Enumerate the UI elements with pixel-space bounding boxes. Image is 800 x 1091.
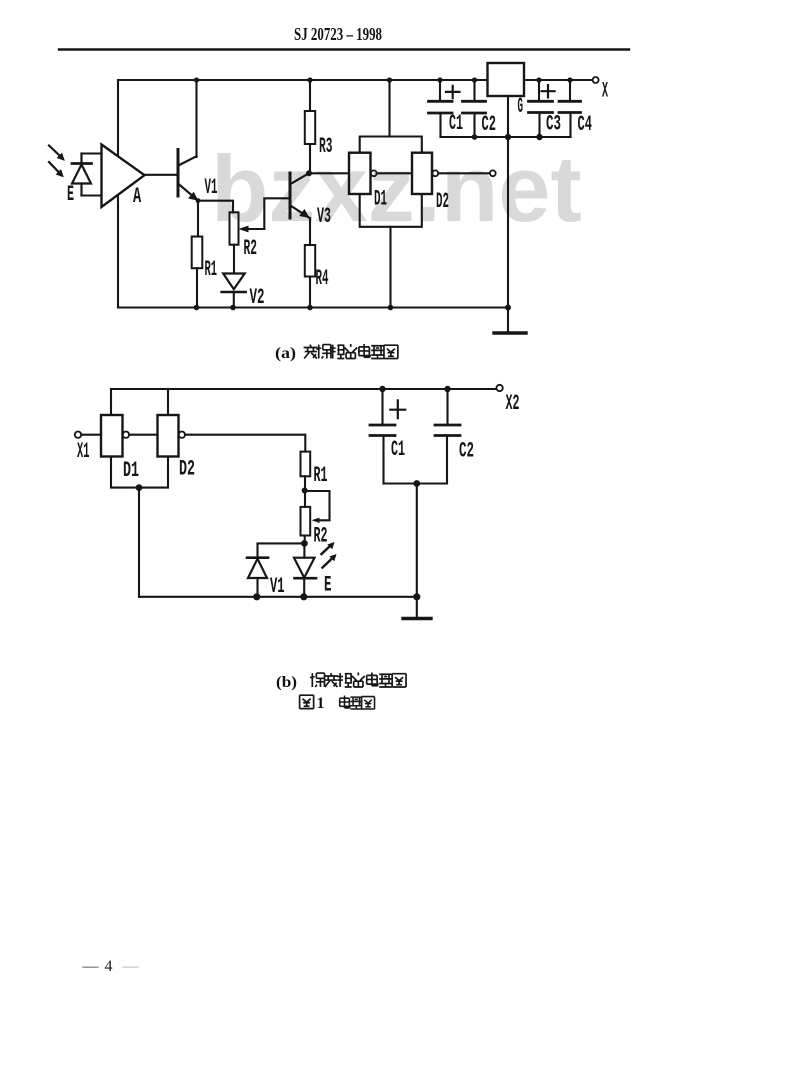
wire: D1/D2 bottom connector (b) [111, 457, 168, 488]
svg-text:(b): (b) [276, 674, 297, 691]
potentiometer R2 (b) [301, 507, 311, 536]
svg-text:X2: X2 [506, 392, 520, 417]
svg-text:E: E [324, 573, 331, 598]
terminal X1 [75, 432, 81, 438]
wire D1 to D2 [129, 434, 157, 436]
svg-text:D2: D2 [179, 458, 195, 482]
watermark bzxz.net [211, 135, 631, 243]
wire: emitter node to R2 [198, 201, 233, 213]
node dots (a) top rail [194, 77, 199, 82]
caption (b) hanzi 接收部分电路图 [310, 673, 406, 688]
wire: C1/C2 bottom connector [384, 482, 448, 484]
node under R2 [301, 540, 308, 547]
svg-text:C1: C1 [449, 112, 463, 137]
R2 wiper [245, 228, 264, 230]
regulator G [488, 63, 525, 96]
svg-text:(a): (a) [275, 345, 296, 362]
svg-text:R1: R1 [314, 464, 328, 489]
capacitor C2 (b) [446, 389, 448, 425]
svg-text:A: A [133, 185, 141, 209]
wire D1 to D2 [377, 172, 412, 174]
wire: bottom rail (b) [139, 596, 417, 598]
resistor R3 [309, 80, 311, 111]
wire: top rail (b) [111, 388, 496, 390]
svg-text:R2: R2 [244, 236, 257, 261]
wire: node to V1 [258, 543, 305, 557]
wire: amp output to V1 base [145, 174, 177, 176]
capacitor C1 [439, 80, 441, 101]
node dots (a) bus [472, 134, 478, 140]
inverter D1 [349, 153, 371, 194]
wire: D1/D2 bottom connector [360, 194, 422, 227]
capacitor C2 [473, 80, 475, 101]
photodiode E light arrows [49, 146, 60, 173]
wire: rail drop to connector [388, 80, 390, 137]
wire: D2 out to R1 [185, 435, 305, 452]
wire: capacitor bottom bus [441, 136, 571, 138]
svg-text:V2: V2 [250, 286, 265, 311]
header rule [59, 48, 629, 50]
ground (a) [507, 308, 509, 334]
ground (b) [416, 597, 418, 619]
node V3 collector [306, 170, 312, 176]
resistor R1 (b) [301, 452, 311, 477]
svg-text:E: E [67, 183, 74, 208]
wire: ground drop (b) [416, 484, 418, 597]
resistor R4 [305, 245, 315, 277]
wire: photodiode bracket [82, 154, 102, 196]
wire: left drop (b) [138, 488, 140, 597]
svg-text:G: G [518, 95, 524, 120]
potentiometer R2 [230, 212, 239, 244]
svg-text:—4—: —4— [82, 958, 140, 975]
diode V1 (b) [247, 556, 268, 559]
svg-text:C4: C4 [578, 113, 593, 138]
wire: D2 output to terminal [438, 172, 489, 174]
transistor V3 [289, 173, 292, 218]
svg-text:R2: R2 [314, 524, 328, 549]
svg-text:R3: R3 [319, 134, 332, 159]
svg-text:D2: D2 [436, 191, 449, 215]
node V1 emitter [196, 198, 201, 203]
transistor V1 [177, 150, 180, 197]
photodiode E [72, 154, 92, 196]
diode V2 [233, 245, 235, 274]
inverter D1 (b) [110, 389, 112, 415]
capacitor C3 [538, 80, 540, 101]
svg-text:R4: R4 [316, 268, 329, 292]
inverter D2 [412, 153, 432, 194]
svg-text:X1: X1 [77, 440, 89, 464]
wire X1 to D1 [81, 434, 101, 436]
node dots (b) [379, 386, 385, 392]
caption (a) hanzi 发射部分电路图 [304, 344, 398, 359]
terminal X2 [496, 385, 502, 391]
resistor R1 [192, 237, 203, 269]
capacitor C1 (b) [381, 389, 383, 425]
wire: bottom rail [118, 306, 509, 308]
svg-text:X: X [602, 80, 608, 104]
LED E (b) [303, 543, 305, 557]
svg-text:V1: V1 [270, 575, 284, 600]
terminal X [593, 77, 599, 83]
inverter D2 (b) [167, 389, 169, 415]
wire: top rail [118, 79, 593, 81]
capacitor C4 [569, 80, 571, 101]
wire: V3 collector to D1 [309, 172, 349, 174]
svg-text:C2: C2 [482, 113, 496, 138]
wire: bottom connector drop [389, 227, 391, 308]
R1/R2 node [302, 488, 308, 494]
wire: D1/D2 top connector [360, 137, 422, 153]
terminal (a) output [490, 170, 496, 176]
potentiometer R2 (b) wiper loop [305, 491, 330, 520]
svg-text:SJ 20723 – 1998: SJ 20723 – 1998 [294, 24, 382, 44]
svg-text:V1: V1 [205, 177, 218, 201]
svg-text:R1: R1 [205, 258, 217, 282]
svg-text:C2: C2 [459, 439, 474, 464]
svg-text:D1: D1 [374, 188, 387, 212]
svg-text:1: 1 [317, 695, 325, 712]
svg-text:V3: V3 [317, 205, 331, 230]
caption 图1 电路图 [300, 695, 314, 708]
op-amp A [102, 145, 145, 208]
wire: emitter node down to R1 [197, 201, 199, 237]
wire: ground drop [507, 137, 509, 308]
LED E arrows [322, 546, 332, 568]
svg-text:D1: D1 [123, 459, 139, 483]
wire: left rail [117, 80, 119, 308]
svg-text:C3: C3 [546, 112, 561, 137]
node dots (a) bottom rail [194, 305, 200, 311]
svg-text:C1: C1 [391, 438, 405, 463]
